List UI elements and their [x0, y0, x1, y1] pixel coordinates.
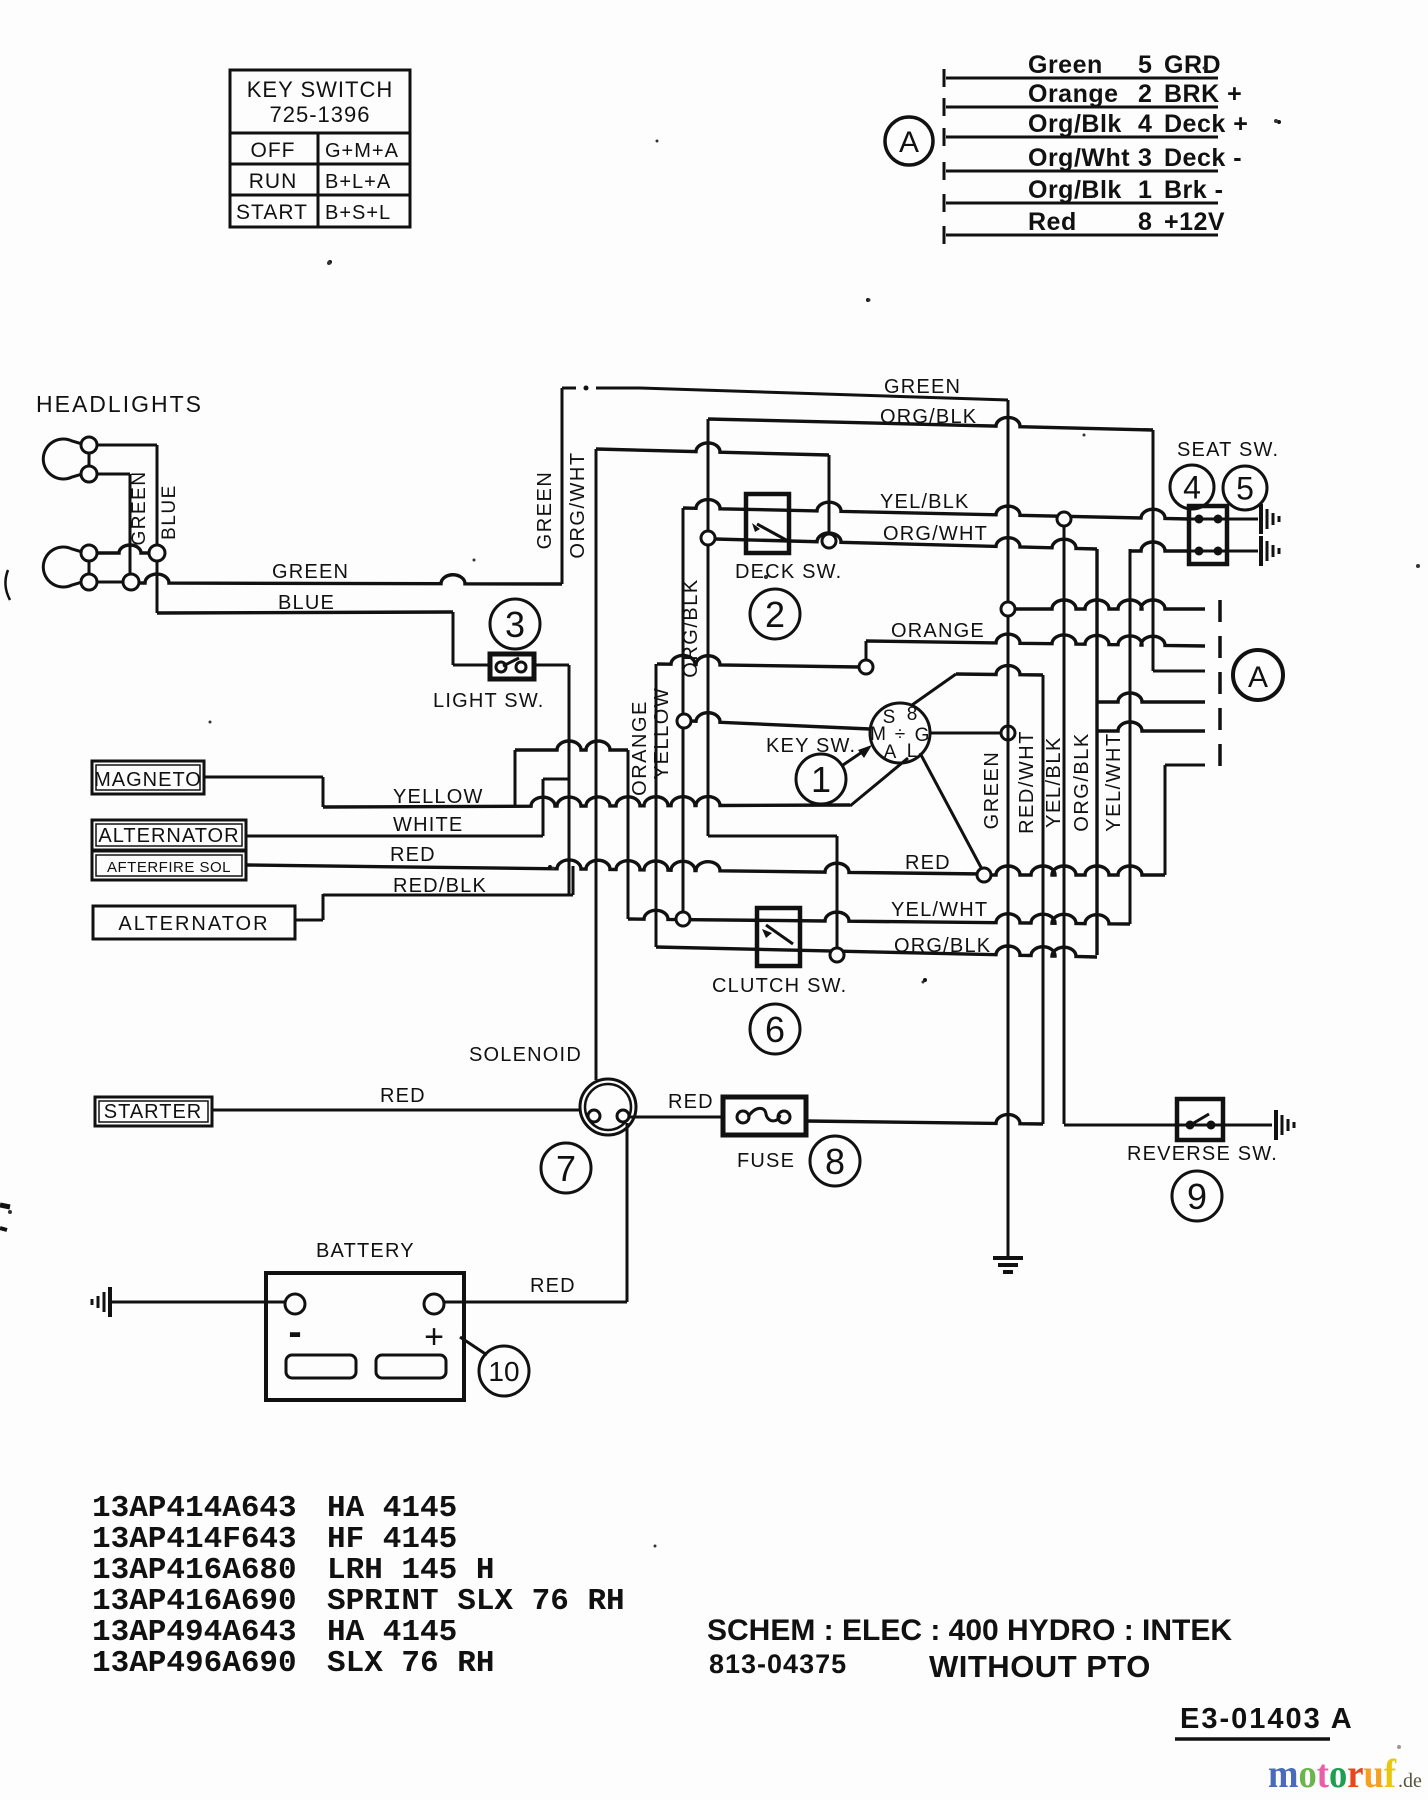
wire blue vertical from top lamp — [97, 444, 157, 447]
svg-text:ORANGE: ORANGE — [891, 620, 985, 642]
fuse out wire to red/wht bus — [806, 1115, 1043, 1124]
svg-text:13AP494A643: 13AP494A643 — [92, 1615, 297, 1650]
svg-text:HA 4145: HA 4145 — [327, 1491, 457, 1526]
svg-text:REVERSE SW.: REVERSE SW. — [1127, 1143, 1278, 1165]
seat wires through box to grounds — [1189, 518, 1258, 521]
svg-text:Deck -: Deck - — [1164, 144, 1242, 172]
yellow branch riser W1 — [514, 750, 517, 807]
headlight lamp top — [43, 439, 89, 479]
svg-text:SLX 76 RH: SLX 76 RH — [327, 1646, 494, 1681]
solenoid out to fuse — [630, 1116, 723, 1119]
svg-text:ORG/BLK: ORG/BLK — [894, 935, 991, 957]
svg-text:GREEN: GREEN — [534, 471, 556, 550]
svg-text:STARTER: STARTER — [104, 1101, 203, 1123]
svg-text:YEL/WHT: YEL/WHT — [1103, 732, 1125, 831]
svg-text:AFTERFIRE SOL: AFTERFIRE SOL — [107, 859, 231, 876]
svg-text:ORG/WHT: ORG/WHT — [883, 523, 988, 545]
svg-text:.de: .de — [1398, 1770, 1422, 1792]
svg-text:LIGHT SW.: LIGHT SW. — [433, 690, 545, 712]
org/wht top run to deck — [596, 443, 829, 455]
wire green vertical from top lamp — [97, 473, 130, 476]
svg-text:+12V: +12V — [1164, 208, 1225, 236]
svg-text:Org/Wht: Org/Wht — [1028, 144, 1130, 172]
yel/blk wire from deck to seat — [683, 500, 1189, 519]
svg-text:E3-01403 A: E3-01403 A — [1180, 1703, 1354, 1735]
org/wht deck wire — [701, 531, 715, 545]
svg-text:SEAT SW.: SEAT SW. — [1177, 439, 1279, 461]
svg-text:5: 5 — [1236, 471, 1254, 507]
svg-text:RUN: RUN — [249, 170, 298, 193]
svg-text:Org/Blk: Org/Blk — [1028, 110, 1122, 138]
seat ground top — [1259, 504, 1263, 534]
circle 8 — [810, 1136, 860, 1186]
connector A wire list — [885, 51, 1248, 244]
center bottom ground — [993, 1256, 1023, 1260]
svg-text:ORG/BLK: ORG/BLK — [1071, 732, 1093, 831]
svg-text:BLUE: BLUE — [278, 592, 335, 614]
svg-text:YEL/BLK: YEL/BLK — [880, 491, 970, 513]
battery red wire to solenoid — [444, 1301, 627, 1304]
battery left ground — [108, 1287, 112, 1317]
seat lower wire from yel/wht bus — [1129, 549, 1132, 924]
svg-text:÷: ÷ — [895, 724, 905, 745]
circle 9 — [1172, 1171, 1222, 1221]
solenoid double circle — [580, 1079, 636, 1135]
clutch switch box — [757, 908, 800, 966]
svg-text:4: 4 — [1138, 110, 1152, 138]
org/blk bus — [1095, 549, 1098, 955]
wire to blue junction on bottom lamp — [97, 545, 150, 553]
svg-text:MAGNETO: MAGNETO — [94, 769, 202, 791]
svg-text:RED: RED — [668, 1091, 714, 1113]
orange bus — [655, 664, 658, 947]
svg-text:RED/WHT: RED/WHT — [1016, 730, 1038, 834]
starter red wire — [212, 1109, 580, 1112]
yel/wht clutch wire — [628, 910, 1130, 924]
org/blk clutch wire — [656, 946, 1097, 957]
svg-text:B+L+A: B+L+A — [325, 171, 391, 193]
wire 5 org/blk to connector — [1097, 722, 1205, 731]
green riser up to top green run — [561, 388, 564, 584]
svg-text:13AP414A643: 13AP414A643 — [92, 1491, 297, 1526]
svg-text:5: 5 — [1138, 51, 1152, 79]
svg-text:Deck +: Deck + — [1164, 110, 1248, 138]
svg-text:ALTERNATOR: ALTERNATOR — [118, 913, 269, 935]
svg-text:RED: RED — [905, 852, 951, 874]
reverse switch box — [1177, 1099, 1223, 1140]
svg-text:YELLOW: YELLOW — [651, 687, 673, 779]
circle 7 — [541, 1143, 591, 1193]
long green wire to riser — [139, 574, 562, 584]
circle 3 — [490, 599, 540, 649]
svg-text:GREEN: GREEN — [129, 470, 150, 545]
scan artifacts — [5, 570, 10, 600]
fuse box — [723, 1097, 806, 1135]
starter box — [95, 1097, 212, 1126]
reverse ground — [1274, 1110, 1278, 1140]
svg-text:ORG/BLK: ORG/BLK — [680, 578, 702, 677]
svg-text:START: START — [236, 201, 308, 224]
S terminal diagonal and red/wht bus start — [912, 674, 956, 705]
light switch box — [490, 654, 534, 679]
key switch circle — [870, 703, 930, 763]
blue wire down then long blue run — [156, 561, 159, 613]
svg-text:13AP416A680: 13AP416A680 — [92, 1553, 297, 1588]
svg-text:725-1396: 725-1396 — [270, 102, 371, 127]
svg-text:ORG/BLK: ORG/BLK — [880, 406, 977, 428]
svg-text:6: 6 — [765, 1009, 785, 1050]
svg-text:Brk -: Brk - — [1164, 176, 1223, 204]
M terminal wire — [677, 714, 691, 728]
svg-text:RED: RED — [530, 1275, 576, 1297]
svg-text:DECK SW.: DECK SW. — [735, 561, 842, 583]
svg-text:GREEN: GREEN — [884, 376, 961, 398]
svg-text:Green: Green — [1028, 51, 1103, 79]
svg-text:A: A — [1248, 661, 1268, 694]
green bus — [1007, 400, 1010, 1258]
deck switch box — [746, 494, 789, 553]
svg-text:1: 1 — [811, 759, 831, 800]
svg-text:motoruf: motoruf — [1268, 1751, 1397, 1796]
svg-text:ORG/WHT: ORG/WHT — [567, 451, 589, 558]
svg-text:7: 7 — [556, 1148, 576, 1189]
org/blk bus at deck — [707, 419, 710, 836]
B terminal diagonal to red wire — [920, 753, 984, 873]
circle 6 — [750, 1004, 800, 1054]
circle 10 with pointer — [460, 1337, 487, 1355]
svg-text:GREEN: GREEN — [272, 561, 349, 583]
svg-text:FUSE: FUSE — [737, 1150, 795, 1172]
alternator box — [92, 820, 246, 850]
magneto wire to yellow — [204, 776, 323, 779]
svg-text:2: 2 — [765, 594, 785, 635]
reverse wire from yel/blk bus — [1064, 1124, 1177, 1127]
svg-text:3: 3 — [1138, 144, 1152, 172]
alternator2 wire to red/blk — [295, 919, 323, 922]
svg-text:KEY SW.: KEY SW. — [766, 735, 856, 757]
L terminal diagonal to yellow — [850, 758, 908, 806]
svg-text:GRD: GRD — [1164, 51, 1221, 79]
svg-text:OFF: OFF — [251, 139, 296, 162]
svg-text:HF 4145: HF 4145 — [327, 1522, 457, 1557]
circle 4 — [1170, 465, 1214, 509]
svg-text:KEY SWITCH: KEY SWITCH — [247, 77, 394, 102]
svg-text:8: 8 — [907, 704, 918, 725]
afterfire sol box — [92, 851, 246, 880]
key switch legend table 725-1396 — [230, 70, 410, 227]
svg-text:YELLOW: YELLOW — [393, 786, 484, 808]
long blue wire to light switch — [157, 612, 453, 613]
wire 3 org/blk to connector — [1153, 670, 1205, 673]
svg-text:813-04375: 813-04375 — [709, 1649, 847, 1679]
headlight lamp bottom — [43, 547, 89, 587]
circle 5 — [1223, 466, 1267, 510]
circle A lower — [1233, 650, 1283, 700]
light sw to red/blk riser — [534, 664, 569, 667]
svg-text:Org/Blk: Org/Blk — [1028, 176, 1122, 204]
svg-text:A: A — [899, 126, 919, 159]
svg-text:13AP416A690: 13AP416A690 — [92, 1584, 297, 1619]
magneto box — [92, 761, 204, 794]
svg-text:13AP414F643: 13AP414F643 — [92, 1522, 297, 1557]
yellow bus (kill) — [682, 508, 685, 919]
svg-text:Orange: Orange — [1028, 80, 1119, 108]
connector A circle — [885, 117, 933, 165]
svg-text:SOLENOID: SOLENOID — [469, 1044, 582, 1066]
svg-text:BLUE: BLUE — [159, 484, 180, 540]
wire 6 red to connector — [1164, 765, 1167, 875]
svg-text:4: 4 — [1183, 470, 1201, 506]
svg-text:BRK +: BRK + — [1164, 80, 1242, 108]
svg-text:WITHOUT PTO: WITHOUT PTO — [929, 1649, 1151, 1684]
svg-text:RED: RED — [380, 1085, 426, 1107]
svg-text:HA 4145: HA 4145 — [327, 1615, 457, 1650]
svg-text:8: 8 — [1138, 208, 1152, 236]
svg-text:LRH 145 H: LRH 145 H — [327, 1553, 494, 1588]
red wire continues to riser — [991, 866, 1165, 875]
svg-text:B+S+L: B+S+L — [325, 202, 391, 224]
svg-text:13AP496A690: 13AP496A690 — [92, 1646, 297, 1681]
scan specks — [327, 261, 331, 265]
org/blk top wire — [708, 417, 1153, 430]
orange terminal dot and wire — [859, 660, 873, 674]
svg-text:9: 9 — [1187, 1176, 1207, 1217]
svg-text:2: 2 — [1138, 80, 1152, 108]
svg-text:ALTERNATOR: ALTERNATOR — [98, 825, 239, 847]
svg-text:A: A — [884, 742, 897, 763]
svg-text:SCHEM : ELEC : 400 HYDRO : INT: SCHEM : ELEC : 400 HYDRO : INTEK — [707, 1614, 1232, 1647]
svg-text:10: 10 — [488, 1356, 519, 1387]
svg-text:YEL/WHT: YEL/WHT — [891, 899, 988, 921]
alternator 2 box — [93, 906, 295, 939]
battery box — [266, 1273, 464, 1400]
svg-text:-: - — [288, 1310, 301, 1354]
svg-text:1: 1 — [1138, 176, 1152, 204]
svg-text:BATTERY: BATTERY — [316, 1240, 415, 1262]
dashed connector line — [1218, 600, 1222, 778]
seat switch box — [1189, 506, 1227, 564]
seat ground bottom — [1259, 536, 1263, 566]
green junction bottom lamp — [97, 581, 124, 584]
svg-text:SPRINT SLX 76 RH: SPRINT SLX 76 RH — [327, 1584, 625, 1619]
svg-text:YEL/BLK: YEL/BLK — [1043, 736, 1065, 828]
svg-text:ORANGE: ORANGE — [629, 700, 651, 796]
svg-text:Red: Red — [1028, 208, 1077, 236]
svg-text:RED: RED — [390, 844, 436, 866]
svg-text:WHITE: WHITE — [393, 814, 463, 836]
svg-text:8: 8 — [825, 1141, 845, 1182]
svg-text:G+M+A: G+M+A — [325, 140, 399, 162]
svg-text:CLUTCH SW.: CLUTCH SW. — [712, 975, 847, 997]
wire 4 org/wht to connector — [1097, 693, 1205, 702]
svg-text:3: 3 — [505, 604, 525, 645]
svg-text:HEADLIGHTS: HEADLIGHTS — [36, 391, 203, 417]
circle 1 with arrow — [796, 754, 846, 804]
circle 2 — [750, 589, 800, 639]
svg-text:+: + — [424, 1318, 444, 1356]
org/wht bus from headlights to solenoid — [595, 449, 598, 1080]
green top run with dash-dot — [562, 387, 576, 390]
svg-text:GREEN: GREEN — [981, 751, 1003, 830]
G terminal wire — [930, 732, 1001, 735]
wire 1 green to connector — [1001, 602, 1015, 616]
